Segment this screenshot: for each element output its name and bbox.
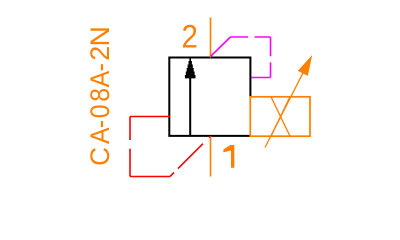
- port 2 line: [210, 18, 212, 58]
- svg-text:A: A: [86, 127, 115, 144]
- orifice X leg 1: [271, 97, 290, 136]
- svg-text:A: A: [86, 70, 115, 87]
- pilot line red segment b: [129, 117, 131, 177]
- valve body B1: [169, 58, 250, 136]
- adjustment arrow shaft: [265, 69, 305, 148]
- svg-text:8: 8: [86, 88, 115, 102]
- pilot line magenta segment c: [270, 37, 272, 78]
- pilot line red segment c: [130, 176, 170, 178]
- svg-text:-: -: [86, 120, 115, 128]
- flow arrowhead: [185, 58, 196, 79]
- pilot line magenta segment d: [251, 77, 270, 79]
- svg-text:0: 0: [86, 104, 115, 118]
- svg-text:-: -: [86, 63, 115, 71]
- adjustment arrowhead: [298, 55, 312, 76]
- svg-text:N: N: [85, 26, 115, 46]
- pilot line red segment a: [130, 116, 170, 118]
- port 1 line: [210, 136, 212, 177]
- orifice X leg 2: [271, 97, 290, 136]
- svg-text:2: 2: [85, 46, 115, 61]
- flow arrow stem: [189, 78, 191, 136]
- port 1 label: [223, 145, 234, 168]
- pilot line magenta segment a: [211, 37, 231, 57]
- svg-text:2: 2: [182, 18, 198, 54]
- pilot line red segment d: [170, 136, 211, 176]
- svg-text:C: C: [85, 147, 115, 166]
- orifice body: [250, 97, 310, 136]
- pilot line magenta segment b: [230, 36, 270, 38]
